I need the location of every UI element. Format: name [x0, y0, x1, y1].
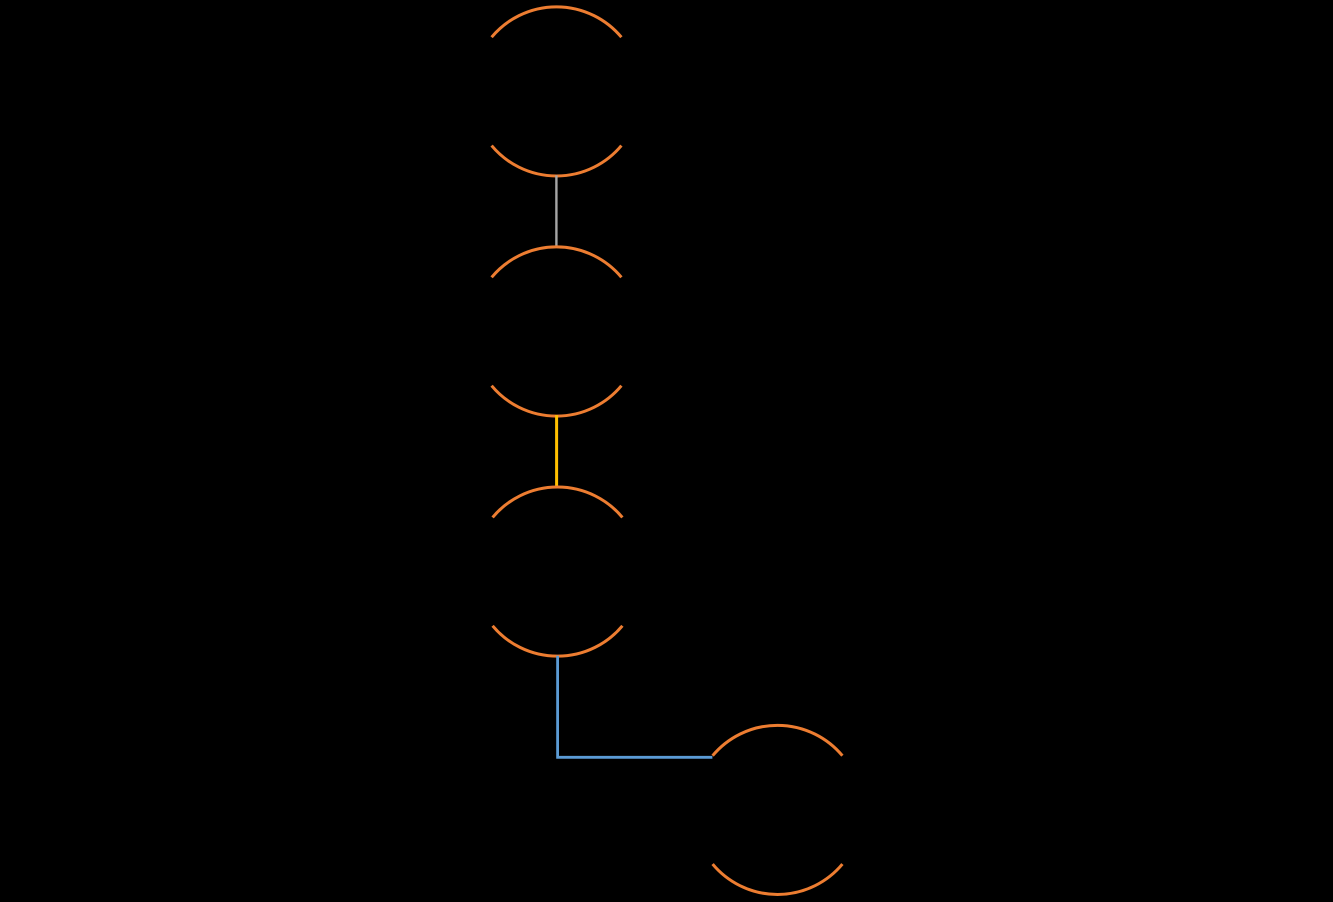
wire grey link circle1-circle2	[555, 175, 557, 247]
node circle 1 (bottom arc)	[492, 146, 622, 176]
node circle 1 (top arc)	[492, 7, 622, 37]
node circle 4 (top arc)	[713, 725, 843, 755]
node circle 4 (bottom arc)	[713, 864, 843, 894]
node circle 2 (bottom arc)	[492, 386, 622, 416]
wire blue elbow link circle3-circle4	[558, 656, 713, 758]
node circle 3 (top arc)	[493, 487, 623, 517]
wire gold link circle2-circle3	[555, 415, 558, 488]
node circle 3 (bottom arc)	[493, 626, 623, 656]
node circle 2 (top arc)	[492, 247, 622, 277]
